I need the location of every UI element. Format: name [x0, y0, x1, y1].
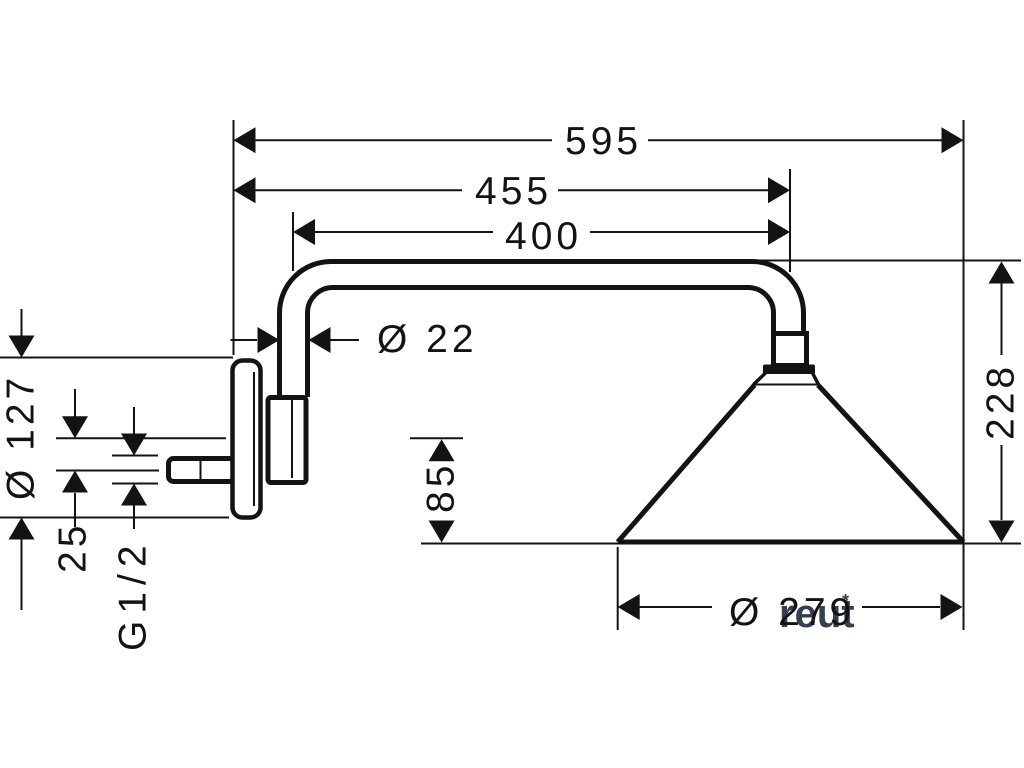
- arrow Ø22 right: [309, 327, 331, 353]
- extension line E2 x=293: [292, 212, 294, 271]
- collar disk: [763, 365, 815, 375]
- arrow 228 top: [989, 262, 1015, 284]
- svg-text:455: 455: [475, 170, 552, 213]
- arrow 25 top: [62, 416, 88, 438]
- supply stub with thread: [169, 458, 235, 482]
- svg-text:G1/2: G1/2: [112, 538, 155, 651]
- dimension Ø22 tails: [231, 339, 258, 341]
- arrow 85 bottom: [429, 521, 455, 543]
- cone base spray face: [618, 540, 964, 545]
- shower arm pipe outer contour: [280, 262, 804, 398]
- svg-text:25: 25: [52, 522, 95, 573]
- dimension 400 line: [314, 231, 493, 233]
- arrow 228 bottom: [989, 521, 1015, 543]
- Ø127 bottom extension line y=517.5: [0, 517, 229, 519]
- 25 bottom reference line y=470.5: [56, 470, 159, 472]
- svg-text:Ø 279: Ø 279: [729, 591, 855, 634]
- extension line E1 wall face x=233.5: [233, 120, 235, 355]
- svg-text:400: 400: [505, 215, 582, 258]
- extension line E4 head outer edge x=963.5: [963, 120, 965, 630]
- mounting body: [268, 398, 306, 483]
- G1/2 bottom reference line y=483.5: [112, 483, 158, 485]
- spray face reference line y=543.5: [421, 543, 1021, 545]
- connector nut: [774, 334, 807, 366]
- cone shower head: [618, 385, 964, 542]
- Ø279 dim line tails y=607: [639, 606, 712, 608]
- arrow Ø279 right: [941, 594, 963, 620]
- arrow 595 left: [234, 127, 256, 153]
- wall plate escutcheon: [233, 361, 261, 518]
- Ø127 top extension line y=357.5: [0, 357, 233, 359]
- G1/2 dim tails x=134: [133, 407, 135, 434]
- arrow 400 right: [768, 219, 790, 245]
- arrow 85 top: [429, 439, 455, 461]
- svg-text:595: 595: [565, 120, 642, 163]
- extension line E3 head axis x=790: [789, 169, 791, 272]
- shower arm pipe inner contour: [308, 288, 774, 398]
- arrow Ø127 bottom: [9, 518, 35, 540]
- 85 top reference line y=438.2: [410, 437, 463, 439]
- dimension 455 line: [255, 189, 462, 191]
- svg-text:Ø 127: Ø 127: [0, 374, 43, 500]
- 25 top reference line y=438.2: [56, 437, 226, 439]
- extension line E5 cone left corner x=617.7: [617, 547, 619, 630]
- arrow 455 right: [768, 177, 790, 203]
- Ø127 dim tails x=21.5: [21, 309, 23, 336]
- neck flare: [754, 373, 819, 385]
- arrow Ø22 left: [258, 327, 280, 353]
- 25 dim tails x=75: [74, 389, 76, 417]
- arrow G1/2 top: [121, 434, 147, 456]
- arrow 455 left: [234, 177, 256, 203]
- svg-text:Ø 22: Ø 22: [377, 318, 478, 361]
- svg-text:85: 85: [420, 462, 463, 513]
- arrow 595 right: [942, 127, 964, 153]
- arrow Ø127 top: [9, 336, 35, 358]
- arrow G1/2 bottom: [121, 484, 147, 506]
- G1/2 top reference line y=455.5: [112, 455, 158, 457]
- svg-text:228: 228: [980, 363, 1023, 440]
- arrow Ø279 left: [618, 594, 640, 620]
- 228 dim tails x=1001.5: [1001, 283, 1003, 355]
- arrow 400 left: [293, 219, 315, 245]
- arrow 25 bottom: [62, 471, 88, 493]
- 228 top reference line y=260.5: [755, 260, 1021, 262]
- dimension 595 line: [255, 139, 552, 141]
